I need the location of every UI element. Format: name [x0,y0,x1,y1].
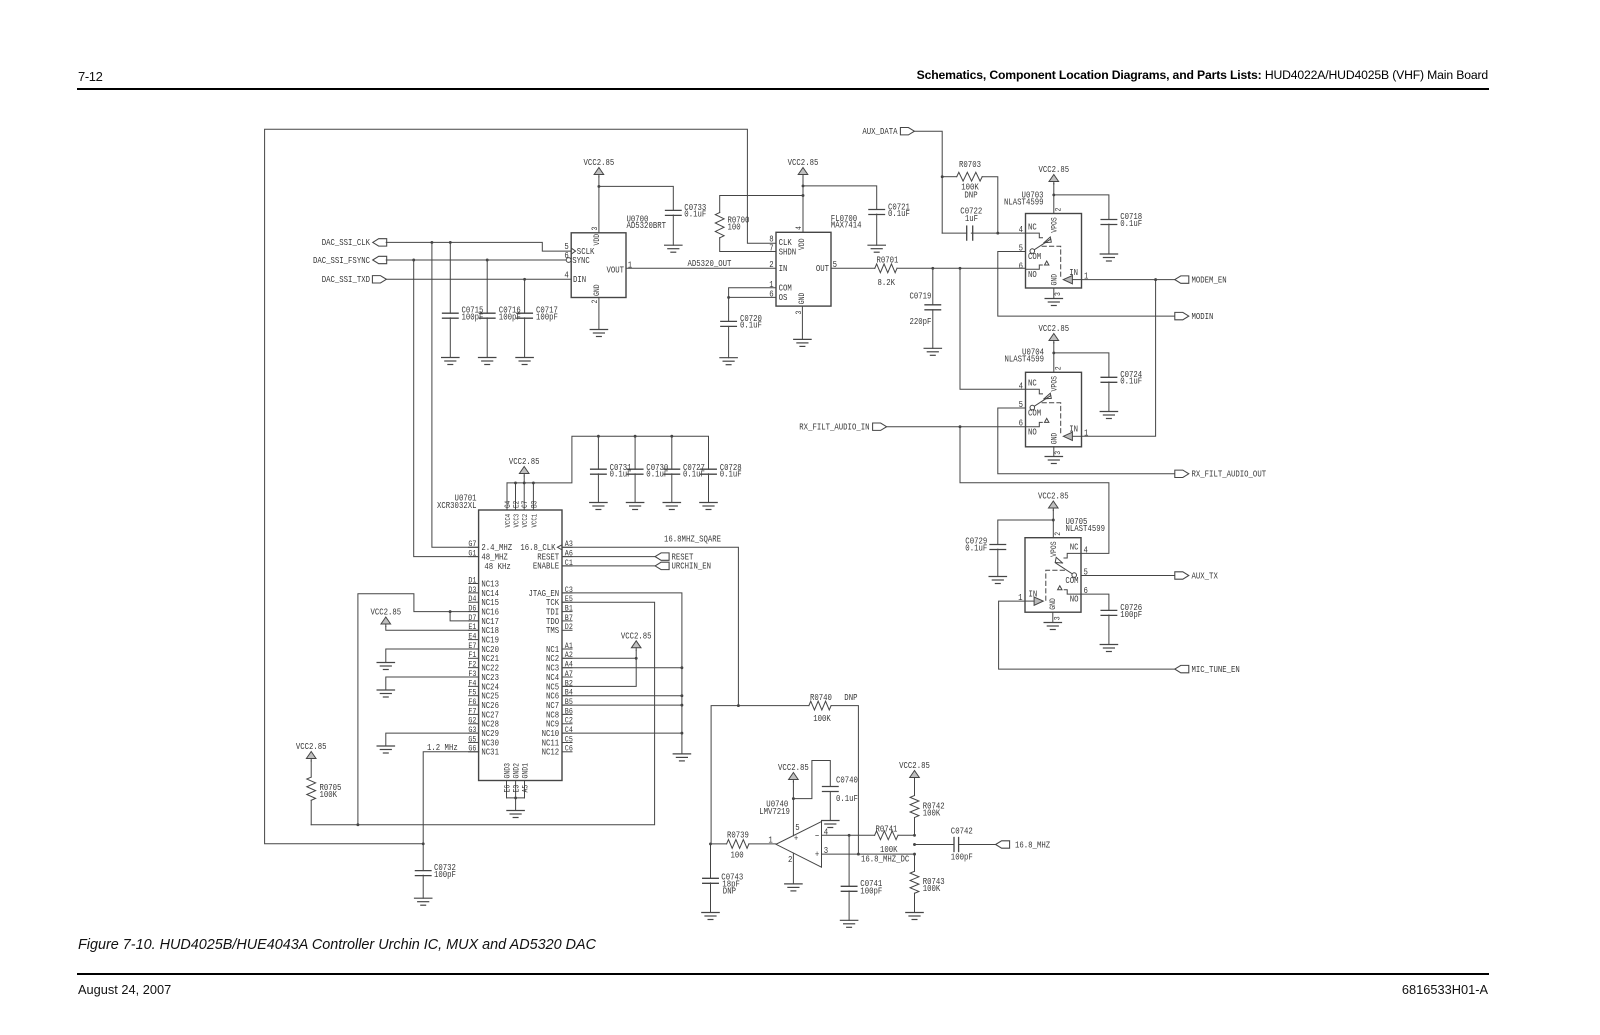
svg-text:6: 6 [769,289,773,300]
ground NC20 [377,663,394,670]
svg-text:F7: F7 [468,708,476,717]
svg-text:VCC3: VCC3 [513,514,522,528]
FL0700 pin numbers [769,226,837,315]
svg-text:ENABLE: ENABLE [533,561,559,572]
svg-text:E6: E6 [504,784,513,792]
svg-text:VCC1: VCC1 [531,514,540,528]
wire AUX_DATA down to C0722 node [914,131,944,233]
svg-text:RX_FILT_AUDIO_IN: RX_FILT_AUDIO_IN [799,422,869,433]
svg-text:F6: F6 [468,698,476,707]
filter FL0700 MAX7414 box [776,213,862,306]
svg-text:F5: F5 [468,689,476,698]
wire R0700 top to VCC node [720,196,803,213]
svg-text:VDD: VDD [798,238,807,250]
svg-text:GND: GND [1049,598,1058,610]
wire R0700 bottom to FL0700 SHDN pin 7 [720,238,776,252]
capacitor C0728 0.1uF [701,462,742,503]
svg-text:DAC_SSI_FSYNC: DAC_SSI_FSYNC [313,255,370,266]
svg-text:3: 3 [824,845,828,856]
svg-text:4: 4 [1019,224,1023,235]
svg-text:IN: IN [1069,424,1078,435]
resistor R0739 100 [727,829,749,860]
wire NC16/NC17 tie to pullup net [358,594,479,825]
svg-text:G3: G3 [468,726,476,735]
ground C0743 [702,913,719,920]
wire DAC_SSI_CLK to U0700 SCLK [386,241,571,251]
svg-text:F1: F1 [468,652,476,661]
svg-text:+: + [794,833,798,844]
wire FL0700 COM/OS tie [727,288,776,299]
ground C0731 [590,503,607,510]
power VCC2.85 U0700 [584,157,615,177]
svg-text:NC: NC [1028,222,1037,233]
svg-text:D2: D2 [565,624,573,633]
svg-text:COM: COM [1065,575,1078,586]
svg-text:100pF: 100pF [434,869,456,880]
svg-text:100: 100 [731,849,744,860]
port MODIN [1175,311,1214,322]
wire U0703 VPOS pin 2 [1052,184,1055,214]
svg-text:E4: E4 [468,633,476,642]
wire U0740 pin 4 inverting input [822,834,916,837]
svg-text:2: 2 [1055,531,1064,535]
svg-text:GND: GND [798,292,807,304]
ground JTAG_EN tie [673,754,690,761]
wire NC6 (B4) to tie [562,695,682,697]
ground C0721 [868,245,885,252]
wire U0703 NO bus down to U0704 NC [960,268,1026,389]
ground C0720 [720,358,737,365]
svg-text:NO: NO [1028,426,1037,437]
svg-text:GND: GND [1051,432,1060,444]
capacitor C0732 100pF [415,844,456,898]
wire 16.8MHZ_SQARE to R0739 [709,842,727,845]
svg-text:B5: B5 [565,698,573,707]
port AUX_TX [1175,571,1218,582]
U0701 48 KHz row [484,561,510,572]
wire FL0700 GND pin 3 [801,306,803,339]
svg-text:C2: C2 [565,717,573,726]
power VCC2.85 R0742 [899,760,930,780]
op-amp U0700 AD5320BRT box [571,213,666,297]
svg-text:16.8_MHZ_DC: 16.8_MHZ_DC [861,854,909,865]
U0701 pin A6 RESET [537,550,573,563]
svg-text:C5: C5 [565,736,573,745]
wire C0722 node to U0703 NC pin 4 [998,232,1026,234]
wire 48MHZ feed (DAC_SSI_FSYNC to U0701 G1) [414,260,479,557]
svg-text:A4: A4 [565,661,573,670]
port AUX_DATA [862,126,914,137]
ground U0703 [1045,299,1062,306]
svg-text:4: 4 [564,270,568,281]
svg-text:5: 5 [1084,567,1088,578]
svg-text:GND3: GND3 [504,763,513,779]
wire U0740 VCC pin 5 [792,782,795,836]
port RX_FILT_AUDIO_IN [799,422,886,433]
svg-text:F2: F2 [468,661,476,670]
resistor R0740 100K DNP feedback [738,692,858,854]
wire U0705 IN to MIC_TUNE_EN [999,601,1175,669]
svg-text:6: 6 [1019,418,1023,429]
ground C0715 [442,358,459,365]
svg-text:0.1uF: 0.1uF [684,209,706,220]
wire VPOS to C0724 [1054,353,1109,377]
port MIC_TUNE_EN [1175,664,1240,675]
ground C0719 [924,348,941,355]
svg-text:3: 3 [1054,451,1063,455]
U0701 pin C1 ENABLE [533,559,573,572]
wire U0700 GND pin 2 [598,298,600,330]
svg-text:D7: D7 [468,614,476,623]
svg-text:5: 5 [795,822,799,833]
svg-text:−: − [815,831,819,842]
svg-text:VDD: VDD [593,234,602,246]
ground C0724 [1100,412,1117,419]
wire NC20 (E7) to ground [386,649,479,663]
resistor R0705 100K pullup [307,761,342,825]
wire NC10 (C4) to tie [562,732,682,734]
capacitor C0741 100pF [841,835,882,920]
U0701 GND pins GND3 GND2 GND1 [504,763,531,811]
ground U0700 [590,330,607,337]
wire U0703 GND pin 3 [1053,288,1055,299]
svg-text:VPOS: VPOS [1051,217,1060,233]
wire NC7 (B5) to tie [562,704,682,706]
svg-text:2: 2 [1055,207,1064,211]
wire U0701 VCC tie bar [507,435,709,485]
svg-text:16.8_MHZ: 16.8_MHZ [1015,839,1050,850]
comparator U0740 LMV7219 triangle [759,798,828,867]
cpld U0701 XCR3032XL box [437,493,562,781]
svg-text:D1: D1 [468,577,476,586]
svg-text:8.2K: 8.2K [878,277,896,288]
wire divider node to C0742 [913,843,954,846]
svg-text:D6: D6 [468,605,476,614]
svg-text:4: 4 [1084,545,1088,556]
svg-text:SYNC: SYNC [572,255,590,266]
resistor R0703 100K DNP [942,159,998,233]
capacitor C0731 0.1uF [591,436,632,502]
svg-text:URCHIN_EN: URCHIN_EN [672,561,711,572]
U0701 pin G7 2.4_MHZ [468,541,512,554]
svg-text:IN: IN [1029,589,1038,600]
svg-text:E1: E1 [468,624,476,633]
svg-text:100K: 100K [320,789,338,800]
svg-text:1uF: 1uF [965,213,978,224]
svg-text:100pF: 100pF [536,311,558,322]
wire net 1.2MHz G6 to C0732 node [422,742,479,845]
wire VDD to C0733 [599,186,673,210]
svg-text:0.1uF: 0.1uF [1120,218,1142,229]
port URCHIN_EN [562,561,711,572]
svg-text:GND: GND [593,284,602,296]
wire U0740 GND pin 2 [792,853,794,884]
svg-text:C4: C4 [565,726,573,735]
svg-text:NLAST4599: NLAST4599 [1005,353,1044,364]
U0701 pin A3 16.8_CLK [520,541,573,554]
ground U0740 [785,884,802,891]
resistor R0742 100K [910,780,945,836]
svg-text:MODEM_EN: MODEM_EN [1192,275,1227,286]
svg-text:D4: D4 [468,596,476,605]
capacitor C0715 100pF [443,242,484,357]
svg-text:6: 6 [1084,585,1088,596]
ground C0730 [626,503,643,510]
ground U0704 [1045,457,1062,464]
svg-text:A7: A7 [565,670,573,679]
ground FL0700 [794,339,811,346]
capacitor C0740 0.1uF [823,775,858,821]
wire R0739 to U0740 pin 1 [749,843,776,845]
svg-text:B4: B4 [565,689,573,698]
wire 2.4MHZ feed (DAC_SSI_CLK to U0701 G7) [432,242,479,547]
svg-text:DNP: DNP [964,189,977,200]
svg-text:VOUT: VOUT [606,264,624,275]
wire net 16.8MHZ_SQARE [562,533,740,843]
resistor R0743 100K [910,854,945,912]
wire U0703 COM to MODIN [998,252,1175,317]
svg-text:DNP: DNP [844,692,857,703]
wire U0704 COM to RX_FILT_AUDIO_OUT [998,408,1175,474]
wire DAC_SSI_TXD to U0700 DIN [386,278,571,281]
svg-text:100: 100 [728,222,741,233]
svg-text:B7: B7 [565,614,573,623]
wire VCC to NC2 (A2) and NC5 (B2) [562,650,638,686]
svg-text:D3: D3 [468,586,476,595]
svg-text:A3: A3 [565,541,573,550]
svg-text:MAX7414: MAX7414 [831,220,862,231]
svg-text:E5: E5 [565,596,573,605]
wire U0704 GND pin 3 [1053,447,1055,457]
svg-text:2: 2 [788,854,792,865]
svg-text:C0740: C0740 [836,775,858,786]
power VCC2.85 E1/NC18 [370,607,401,627]
svg-text:GND2: GND2 [513,763,522,779]
power VCC2.85 U0704 [1038,323,1069,343]
U0701 VCC pins VCC4-VCC1 [504,483,539,528]
capacitor C0721 0.1uF [869,202,910,246]
port MODEM_EN [1175,275,1227,286]
svg-text:A1: A1 [565,642,573,651]
svg-text:DAC_SSI_TXD: DAC_SSI_TXD [322,274,370,285]
svg-text:1: 1 [628,260,632,271]
ground C0716 [479,358,496,365]
svg-text:B1: B1 [565,605,573,614]
analog switch U0704 NLAST4599 [1005,347,1089,455]
svg-text:R0703: R0703 [959,159,981,170]
svg-text:1.2 MHz: 1.2 MHz [427,742,458,753]
svg-text:NC12: NC12 [542,747,560,758]
capacitor C0719 220pF [910,268,941,348]
svg-text:1: 1 [1018,592,1022,603]
svg-text:NC: NC [1070,542,1079,553]
svg-text:C1: C1 [565,559,573,568]
svg-text:C0742: C0742 [951,826,973,837]
svg-text:VPOS: VPOS [1051,376,1060,392]
svg-text:LMV7219: LMV7219 [759,806,790,817]
svg-text:AD5320_OUT: AD5320_OUT [688,258,732,269]
svg-text:G6: G6 [468,745,476,754]
wire pullup net R0705 to TCK [311,602,654,826]
svg-text:2: 2 [769,259,773,270]
capacitor C0720 0.1uF [721,297,762,357]
svg-text:A6: A6 [565,550,573,559]
svg-text:16.8MHZ_SQARE: 16.8MHZ_SQARE [664,533,721,544]
capacitor C0733 0.1uF [666,202,707,245]
power VCC2.85 U0701 [509,456,540,476]
ground C0729 [989,577,1006,584]
capacitor C0718 0.1uF [1101,211,1142,254]
ground C0727 [663,503,680,510]
svg-text:B3: B3 [531,501,540,508]
svg-text:E3: E3 [513,784,522,792]
wire RX_FILT_AUDIO_IN to U0704 NO [886,425,1025,428]
U0701 pin G1 48_MHZ [468,550,507,563]
wire R0701 to U0703 NO pin 6 [897,267,1026,270]
analog switch U0703 NLAST4599 [1004,190,1088,296]
svg-text:6: 6 [1019,260,1023,271]
wire VDD to C0721 [803,186,877,210]
svg-text:AD5320BRT: AD5320BRT [627,220,666,231]
wire net AD5320_OUT (U0700 VOUT to FL0700 IN) [626,258,776,269]
analog switch U0705 NLAST4599 [1018,516,1105,620]
wire VCC to C0740 [793,761,830,799]
svg-text:AUX_TX: AUX_TX [1192,571,1218,582]
power VCC2.85 NC2/NC5 [621,630,652,650]
svg-text:DNP: DNP [723,885,736,896]
svg-text:0.1uF: 0.1uF [836,793,858,804]
resistor R0701 8.2K [875,255,899,288]
svg-text:3: 3 [1054,292,1063,296]
svg-text:OS: OS [779,292,788,303]
port DAC_SSI_CLK [322,237,387,248]
capacitor C0722 1uF [942,206,999,241]
wire VPOS to C0729 [998,520,1054,545]
power VCC2.85 U0703 [1038,164,1069,184]
svg-text:NC: NC [1028,378,1037,389]
wire U0705 COM to AUX_TX [1081,575,1175,577]
svg-text:RX_FILT_AUDIO_OUT: RX_FILT_AUDIO_OUT [1192,469,1267,480]
svg-text:SHDN: SHDN [779,246,797,257]
svg-text:A5: A5 [522,784,531,792]
power VCC2.85 U0740 pin 5 [778,762,809,782]
wire net 1.2MHZ border loop (C0732 node to FL0700 CLK pin 8) [265,129,776,844]
wire VCC to NC18 (E1) [386,627,479,631]
svg-text:MIC_TUNE_EN: MIC_TUNE_EN [1192,664,1240,675]
FL0700 pin names [779,237,829,304]
U0700 pin names [566,234,624,296]
svg-text:R0739: R0739 [727,829,749,840]
U0700 pin numbers [564,226,632,303]
svg-text:0.1uF: 0.1uF [965,543,987,554]
svg-text:5: 5 [1019,243,1023,254]
ground C0726 [1100,645,1117,652]
svg-text:1: 1 [1084,271,1088,282]
ground R0743 [906,913,923,920]
ground C0717 [516,358,533,365]
port DAC_SSI_TXD [322,274,387,285]
capacitor C0730 0.1uF [627,436,668,502]
svg-text:48 KHz: 48 KHz [484,561,510,572]
ground U0701 [507,811,524,818]
ground C0741 [840,920,857,927]
ground C0732 [415,898,432,905]
svg-text:G2: G2 [468,717,476,726]
svg-text:0.1uF: 0.1uF [720,469,742,480]
svg-text:5: 5 [1019,399,1023,410]
svg-text:0.1uF: 0.1uF [888,208,910,219]
svg-text:100pF: 100pF [1120,609,1142,620]
wire U0740 pin 3 noninverting input / net 16.8_MHZ_DC [822,853,916,865]
svg-text:COM: COM [1028,251,1041,262]
power VCC2.85 R0705 [296,741,327,761]
svg-text:4: 4 [1019,380,1023,391]
svg-text:NO: NO [1070,594,1079,605]
wire U0705 GND pin 3 [1052,612,1054,622]
svg-text:100K: 100K [923,883,941,894]
svg-text:C3: C3 [565,586,573,595]
svg-text:VPOS: VPOS [1050,541,1059,557]
svg-text:XCR3032XL: XCR3032XL [437,500,476,511]
power VCC2.85 FL0700 [788,157,819,177]
wire U0700 VDD pin 3 [597,177,600,233]
svg-text:1: 1 [1084,427,1088,438]
wire FL0700 VDD pin 4 [802,177,805,233]
capacitor C0729 0.1uF [965,536,1005,577]
ground C0728 [700,503,717,510]
svg-text:NLAST4599: NLAST4599 [1066,523,1105,534]
svg-text:R0741: R0741 [876,824,898,835]
svg-text:DIN: DIN [573,274,586,285]
svg-text:0.1uF: 0.1uF [1120,376,1142,387]
svg-text:+: + [815,849,819,860]
svg-text:TMS: TMS [546,625,559,636]
svg-text:E7: E7 [468,642,476,651]
svg-text:R0740: R0740 [810,692,832,703]
svg-text:E2: E2 [513,501,522,508]
wire JTAG_EN/NC tie to ground [562,593,683,754]
svg-text:G1: G1 [468,550,476,559]
svg-text:R0701: R0701 [877,255,899,266]
svg-text:3: 3 [1054,616,1063,620]
svg-text:OUT: OUT [816,263,829,274]
svg-text:IN: IN [779,263,788,274]
svg-text:G5: G5 [468,736,476,745]
ground C0740 [822,821,839,828]
wire NC23 (F3) to ground [386,677,479,690]
svg-text:100K: 100K [923,808,941,819]
capacitor C0724 0.1uF [1101,369,1142,412]
svg-text:6: 6 [564,250,568,261]
svg-text:GND1: GND1 [522,763,531,779]
ground C0718 [1100,254,1117,261]
wire NC3 (A4) to tie [562,667,682,669]
capacitor C0716 100pF [479,260,520,358]
svg-text:2: 2 [1055,366,1064,370]
port RX_FILT_AUDIO_OUT [1175,469,1266,480]
port RESET [562,552,693,563]
svg-text:NLAST4599: NLAST4599 [1004,196,1043,207]
ground U0705 [1044,623,1061,630]
svg-text:C6: C6 [565,745,573,754]
svg-text:7: 7 [769,243,773,254]
U0701 left NC pins D1-G6 [468,577,499,758]
svg-text:GND: GND [1051,274,1060,286]
port 16.8_MHZ [996,839,1051,850]
resistor R0741 100K [875,824,899,855]
resistor R0700 100 [715,213,749,238]
wire DAC_SSI_FSYNC to U0700 SYNC [386,259,566,262]
